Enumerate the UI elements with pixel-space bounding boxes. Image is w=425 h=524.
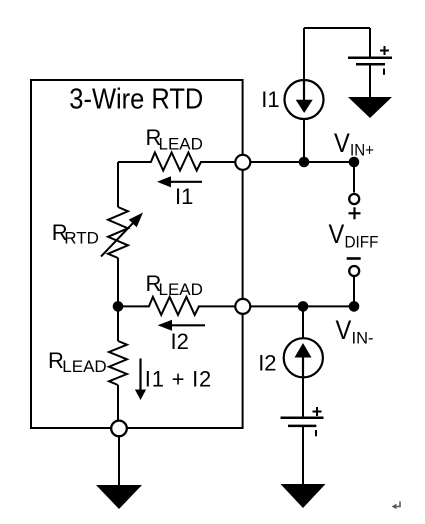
svg-text:V: V [334,128,350,158]
svg-text:I1 + I2: I1 + I2 [145,367,212,392]
svg-text:I1: I1 [261,87,279,112]
svg-text:LEAD: LEAD [159,135,203,154]
svg-text:LEAD: LEAD [159,280,203,299]
svg-text:I2: I2 [171,329,189,354]
svg-text:IN+: IN+ [350,141,374,160]
svg-text:IN-: IN- [352,329,374,348]
svg-text:RTD: RTD [64,229,99,248]
svg-text:I2: I2 [258,351,276,376]
svg-text:V: V [329,219,345,249]
svg-text:V: V [336,315,352,345]
svg-text:3-Wire RTD: 3-Wire RTD [69,84,203,116]
svg-text:DIFF: DIFF [345,233,379,252]
svg-text:I1: I1 [175,184,193,209]
svg-text:LEAD: LEAD [62,357,106,376]
